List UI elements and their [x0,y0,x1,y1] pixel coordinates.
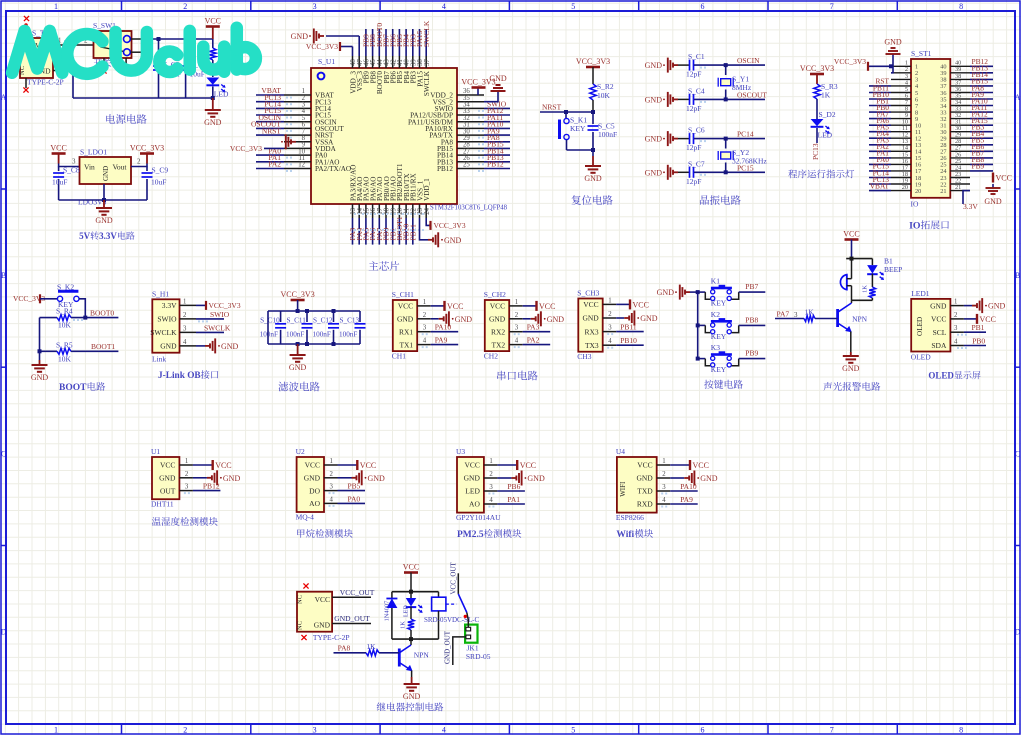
svg-text:4: 4 [515,338,519,345]
svg-text:U4: U4 [616,447,625,456]
svg-text:1K: 1K [862,285,869,293]
svg-text:GND: GND [547,315,565,324]
svg-text:2: 2 [662,471,666,478]
svg-text:37: 37 [424,59,431,66]
svg-text:S_CH2: S_CH2 [484,290,506,299]
ground GND IO pin2 [884,38,902,73]
svg-text:S_R2: S_R2 [597,82,614,91]
svg-text:NC: NC [297,621,304,630]
svg-text:2: 2 [330,471,334,478]
svg-text:2: 2 [954,312,958,319]
MCU pin 35 VSS_2 [433,95,484,106]
OLED LED1 body [911,289,951,362]
svg-text:U3: U3 [456,447,465,456]
svg-text:3: 3 [489,484,493,491]
MCU pin 34 SWIO [435,100,510,113]
IO header pin 6/35 [869,90,993,104]
svg-text:20: 20 [902,184,908,191]
net 3.3V IO pin21 [963,191,978,211]
reset gnd wire [567,148,596,156]
svg-text:GND: GND [314,621,331,630]
buzzer B1 BEEP [840,257,902,301]
crystal S_Y2 32.768KHz [718,137,767,175]
svg-text:4: 4 [330,496,334,503]
svg-text:2: 2 [423,312,427,319]
ground GND IO pin22 [984,184,1002,206]
svg-text:KEY: KEY [711,365,727,374]
net BOOT0 [71,308,118,321]
svg-text:1: 1 [183,298,186,305]
svg-text:S_H1: S_H1 [152,290,169,299]
MCU pin 13 PA3/RX/AO [348,165,357,245]
svg-text:GP2Y1014AU: GP2Y1014AU [456,513,501,522]
svg-text:GND: GND [842,364,860,373]
S_CH2 pin 4 TX2 [491,336,550,350]
resistor S_R3 [814,82,838,119]
svg-text:8: 8 [959,726,963,735]
svg-text:DO: DO [309,486,320,495]
MCU pin 27 PB14 [437,146,510,159]
svg-text:GND: GND [584,174,602,183]
IO header pin 15/26 [869,149,993,163]
S_CH3 pin 2 GND [582,311,657,326]
U4 pin 2 GND [636,471,717,486]
svg-text:K1: K1 [711,277,720,286]
ground GND alarm [842,352,860,373]
S_T1 bottom pin [23,78,28,93]
IO header pin 3/38 [891,70,993,84]
MCU pin 20 PB2/BOOT1 [395,163,404,245]
svg-text:3: 3 [185,484,189,491]
net PA8 [338,643,351,652]
MCU pin 25 PB12 [437,160,510,173]
svg-text:3: 3 [794,311,798,319]
svg-text:SWCLK: SWCLK [422,20,431,47]
MCU pin 14 PA4/AO [355,177,364,245]
svg-text:NPN: NPN [414,651,430,660]
net PC14 [726,130,765,139]
svg-text:12pF: 12pF [686,70,701,79]
svg-text:A: A [1015,93,1021,102]
MCU U1 STM32F103C8T6 body [311,57,508,212]
alarm bottom rail [852,299,873,301]
MCU pin 17 PA7/AO [375,177,384,245]
svg-text:PA2: PA2 [268,160,281,169]
MCU pin 2 PC13 [256,93,331,106]
regulator S_LDO1 [78,148,131,207]
svg-text:S_C10: S_C10 [260,317,280,325]
ground GND reset [584,156,602,183]
svg-text:VCC_3V3: VCC_3V3 [230,144,262,153]
U4 pin 3 TXD [637,482,697,496]
svg-text:GND: GND [582,314,599,323]
boot gnd wire [38,318,42,360]
svg-text:PB9: PB9 [972,162,985,171]
svg-text:GND: GND [640,314,658,323]
svg-text:GND: GND [160,342,177,351]
resistor R alarm 1K [862,285,876,301]
resistor S_R2 [590,82,614,112]
svg-text:VCC_3V3: VCC_3V3 [306,42,338,51]
S_CH1 pin 1 VCC [398,299,464,311]
connector S_H1 J-Link body [152,290,180,364]
title 晶振电路 [700,195,741,205]
net VCC_3V3 at VDDA pin9 [230,144,284,153]
IO header pin 14/27 [869,142,993,156]
svg-text:DHT11: DHT11 [151,500,174,509]
IO header pin 12/29 [869,129,993,143]
svg-text:RXD: RXD [637,500,653,509]
svg-text:Vout: Vout [112,163,127,172]
svg-text:4: 4 [442,2,446,11]
power VCC_3V3 at VDD_3 pin48 [306,42,353,56]
svg-text:VCC: VCC [360,461,376,470]
ground GND boot [31,360,49,382]
U3 pin 4 AO [469,495,525,509]
svg-text:2: 2 [608,311,612,318]
svg-text:2: 2 [183,2,187,11]
connector U2 body [296,447,324,522]
svg-text:VCC_3V3: VCC_3V3 [280,290,314,299]
IO header pin 10/31 [869,116,993,130]
svg-text:3.3V: 3.3V [162,301,177,310]
svg-text:5: 5 [571,2,575,11]
svg-text:1K: 1K [366,642,376,651]
ground GND keys [657,285,690,300]
svg-text:PB12: PB12 [487,160,504,169]
MCU pin 9 VDDA [284,142,337,153]
svg-text:VCC: VCC [305,461,320,470]
svg-text:LED: LED [818,131,833,140]
svg-text:1K: 1K [805,308,815,317]
LED S_D2 [811,110,836,143]
power VCC_3V3 reset [576,57,610,84]
svg-text:K2: K2 [711,310,720,319]
svg-text:LED: LED [404,605,410,617]
svg-text:VCC_3V3: VCC_3V3 [576,57,610,66]
svg-text:VCC: VCC [490,302,505,311]
title Wifi模块 [616,529,653,540]
S_SW1 pin2 stub [101,58,127,74]
svg-text:GND: GND [304,474,321,483]
net OSCIN [726,56,765,65]
svg-text:PA3: PA3 [527,323,540,332]
ground GND jlink [196,338,239,353]
U2 pin 4 AO [309,494,365,508]
U2 pin 3 DO [309,482,365,496]
button K3 [705,343,765,374]
svg-text:BOOT1: BOOT1 [91,342,115,351]
svg-text:VCC: VCC [843,230,859,239]
U2 pin 1 VCC [305,458,377,470]
svg-text:GND: GND [444,236,462,245]
power VCC_3V3 indicator [800,64,834,84]
svg-text:2: 2 [489,471,493,478]
LED D1 [206,64,230,99]
svg-text:S_CH3: S_CH3 [577,289,599,298]
U3 pin 1 VCC [464,458,536,470]
net PC15 [726,163,765,172]
net VCC_3V3 boot [13,294,57,303]
power VCC_3V3 IO pin1 [834,57,893,71]
MCU pin 48 VDD_3 [349,56,357,94]
svg-text:VCC_3V3: VCC_3V3 [130,144,164,153]
svg-text:1: 1 [54,726,58,735]
svg-text:VCC: VCC [633,300,649,309]
svg-text:D: D [1015,628,1021,637]
svg-text:VCC: VCC [931,315,946,324]
svg-text:S_R5: S_R5 [56,340,73,349]
LED relay [404,592,423,619]
MCU pin 42 PB6 [388,29,397,83]
svg-text:25: 25 [463,162,470,169]
svg-text:PA10: PA10 [435,323,452,332]
svg-text:GND: GND [159,474,176,483]
IO header pin 17/24 [869,162,993,176]
LED1 pin 4 SDA [931,339,964,351]
connector U4 body [616,447,657,522]
title IO拓展口 [909,220,949,231]
title 串口电路 [497,371,538,381]
svg-text:8: 8 [959,2,963,11]
power VCC alarm [843,230,859,259]
connector JK1 SRD-05 [465,613,491,662]
svg-text:OLED: OLED [928,371,954,381]
svg-text:S_C1: S_C1 [688,52,705,61]
LED1 pin 3 SCL [933,325,964,337]
title OLED显示屏 [928,371,980,381]
svg-text:S_C4: S_C4 [688,86,705,95]
MCU pin 22 PB11/RX [408,172,417,244]
S_CH2 pin 1 VCC [490,299,556,311]
svg-text:10K: 10K [597,91,611,100]
svg-text:1: 1 [954,299,957,306]
svg-text:U1: U1 [151,447,160,456]
svg-text:6: 6 [701,726,705,735]
svg-text:S_C13: S_C13 [340,317,360,325]
net PB0 oled [957,337,986,350]
title PM2.5检测模块 [457,529,521,540]
svg-text:Wifi: Wifi [616,530,634,540]
MCU pin 45 PB8 [368,29,377,83]
svg-text:AO: AO [309,499,320,508]
svg-text:WIFI: WIFI [619,481,627,497]
svg-text:OUT: OUT [160,486,176,495]
U4 pin 1 VCC [637,458,709,470]
MCU pin 37 SWCLK [422,20,431,96]
relay bottom rail [392,637,439,641]
svg-text:3: 3 [330,484,334,491]
svg-text:PB0: PB0 [972,337,985,346]
title J-Link OB接口 [158,370,218,381]
svg-text:LED: LED [465,487,480,496]
svg-text:BEEP: BEEP [884,265,902,274]
svg-text:SWIO: SWIO [210,310,230,319]
svg-text:VDD_1: VDD_1 [423,178,431,201]
svg-text:SWIO: SWIO [157,315,177,324]
MCU pin 16 PA6/AO [368,177,377,245]
button K2 [705,310,765,341]
MCU pin 4 PC15 [256,106,331,119]
svg-text:1: 1 [489,458,492,465]
svg-text:3.3V: 3.3V [963,202,978,211]
power port VCC_3V3 ldo [130,144,164,164]
svg-text:PB11: PB11 [620,323,637,332]
svg-text:12: 12 [298,162,305,169]
svg-text:PB10: PB10 [620,336,637,345]
svg-text:GND: GND [645,95,663,104]
svg-text:RX2: RX2 [491,327,505,336]
svg-text:GND: GND [645,168,663,177]
svg-text:PA1: PA1 [507,495,520,504]
svg-text:PA10: PA10 [680,482,697,491]
svg-text:10uF: 10uF [52,178,67,187]
transistor Q2 NPN relay [399,639,429,677]
svg-text:PA0: PA0 [348,494,361,503]
svg-text:PB11: PB11 [408,224,417,241]
svg-text:GND: GND [221,342,239,351]
ground at VSS_2 [484,74,507,102]
MCU pin 23 VSS_1 [416,180,424,218]
capacitor S_C2 [153,39,181,98]
svg-text:100nF: 100nF [313,331,331,339]
LED1 pin 1 GND [930,299,964,311]
svg-text:3.3V: 3.3V [99,231,117,241]
power VCC_3V3 jlink [196,301,241,310]
IO header pin 7/34 [869,96,993,110]
svg-text:RX3: RX3 [585,327,599,336]
svg-text:5V: 5V [79,231,91,241]
svg-text:GND: GND [527,474,545,483]
svg-text:7: 7 [830,2,834,11]
svg-text:SWCLK: SWCLK [423,70,431,96]
MCU pin 28 PB15 [437,140,510,153]
power VCC_3V3 at VDD_1 pin24 [426,218,466,230]
U2 pin 2 GND [304,470,385,485]
svg-text:GND: GND [223,474,241,483]
svg-text:21: 21 [940,188,946,195]
S_CH3 pin 3 RX3 [585,323,644,337]
svg-text:OLED: OLED [911,353,932,362]
svg-text:MQ-4: MQ-4 [296,513,315,522]
IO header pin 4/37 [869,77,993,91]
S_CH3 pin 1 VCC [583,297,649,309]
svg-text:2: 2 [185,471,189,478]
MCU pin 6 OSCOUT [251,120,344,133]
svg-text:SCL: SCL [933,328,947,337]
capacitor S_C7 [678,159,726,186]
net BOOT1 [71,342,118,351]
MCU pin 8 VSSA [284,135,334,146]
capacitor S_C6 [678,126,726,153]
S_T1 top pin [24,16,29,38]
svg-text:S_C8: S_C8 [63,166,80,175]
MCU pin 7 NRST [256,126,334,139]
relay coil SRD-05VDC-SL-C [424,592,480,639]
svg-text:VCC_3V3: VCC_3V3 [209,301,241,310]
svg-text:TXD: TXD [637,487,653,496]
keys gnd bus [690,290,705,361]
power VCC oled [964,314,996,324]
svg-text:PB7: PB7 [745,282,758,291]
MCU pin 11 PA1/AO [256,153,340,166]
svg-text:AO: AO [469,500,480,509]
IO header pin 16/25 [869,155,993,169]
S_H1 pin 3 SWCLK [150,325,196,337]
alarm top rail [846,257,872,261]
svg-text:LED: LED [214,90,229,99]
net PA7 [777,310,790,319]
svg-text:3: 3 [183,325,187,332]
svg-text:1: 1 [185,458,188,465]
svg-text:10uF: 10uF [151,178,166,187]
svg-text:GND: GND [489,315,506,324]
svg-text:GND: GND [455,315,473,324]
title 电源电路 [106,114,146,124]
title 5V转3.3V电路 [79,231,135,241]
svg-text:PA8: PA8 [338,643,351,652]
filter top rail [268,309,360,313]
svg-text:3: 3 [313,726,317,735]
ground GND S_C6 [645,131,678,146]
svg-text:1: 1 [423,299,426,306]
svg-text:PB9: PB9 [745,349,758,358]
net OSCOUT [726,90,768,99]
svg-text:C: C [1,449,6,458]
title 滤波电路 [278,382,319,392]
svg-text:3: 3 [662,484,666,491]
svg-text:S_C9: S_C9 [152,166,169,175]
capacitor S_C3 [180,39,207,98]
svg-text:S_C7: S_C7 [688,159,705,168]
svg-text:VCC: VCC [996,174,1012,183]
svg-text:VCC_OUT: VCC_OUT [449,561,457,594]
diode 1N4007 [384,592,398,639]
title 温湿度检测模块 [152,517,218,526]
title BOOT电路 [59,382,105,393]
svg-text:NRST: NRST [262,126,282,135]
svg-text:VCC_3V3: VCC_3V3 [834,57,866,66]
svg-text:VCC: VCC [205,17,221,26]
MCU pin 5 OSCIN [256,113,337,126]
svg-text:GND: GND [397,315,414,324]
svg-text:8MHz: 8MHz [732,83,752,92]
capacitor S_C11 [286,309,313,346]
svg-text:OSCIN: OSCIN [737,56,760,65]
svg-text:VCC: VCC [693,461,709,470]
svg-text:VCC: VCC [539,302,555,311]
MCU pin 46 PB9 [362,29,371,83]
svg-text:D: D [1,628,7,637]
MCU pin 43 PB7 [382,29,391,83]
svg-text:TX1: TX1 [399,340,413,349]
svg-text:KEY: KEY [570,124,586,133]
svg-text:3: 3 [423,325,427,332]
relay switch contact [446,561,467,618]
svg-text:KEY: KEY [711,332,727,341]
connector U1 body [151,447,179,509]
connector S_T1 TYPE-C-2P [19,29,64,87]
svg-text:100nF: 100nF [598,130,617,139]
ground at VSSA pin8 [281,134,296,149]
svg-text:10K: 10K [58,354,72,363]
IO header pin 2/39 [891,64,993,78]
power VCC_3V3 at VDD_2 [461,78,495,96]
svg-text:VCC: VCC [50,144,66,153]
svg-text:PA7: PA7 [777,310,790,319]
svg-text:GND: GND [930,301,947,310]
net PC13 vertical [811,143,820,160]
